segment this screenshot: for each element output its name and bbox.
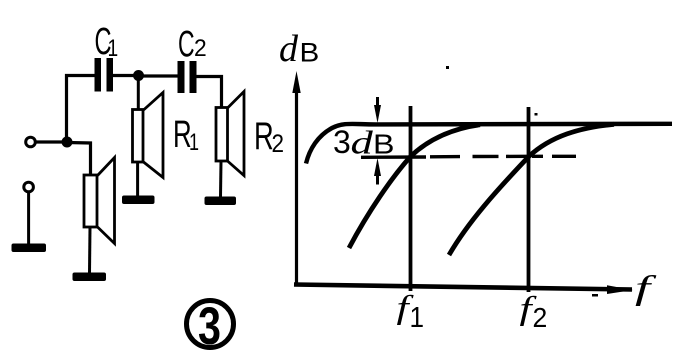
label 3dB bbox=[333, 124, 351, 160]
wire C2 to speaker R2 bbox=[197, 77, 222, 109]
wire terminal to node B bbox=[36, 140, 64, 143]
label f2 bbox=[520, 291, 538, 327]
wire node A to C2 bbox=[143, 74, 178, 77]
svg-text:1: 1 bbox=[189, 130, 199, 156]
svg-text:d: d bbox=[279, 28, 299, 70]
y-axis dB bbox=[292, 71, 300, 285]
x-axis f bbox=[294, 285, 633, 295]
dashed -3dB level line bbox=[361, 156, 576, 157]
3dB dimension arrow lower bbox=[374, 158, 381, 185]
ground under bottom terminal bbox=[12, 244, 47, 253]
ground under R1 bbox=[122, 196, 155, 205]
svg-text:2: 2 bbox=[272, 130, 285, 158]
label C1 bbox=[95, 19, 112, 62]
label f bbox=[635, 269, 657, 306]
wire speaker R2 to ground bbox=[219, 161, 223, 197]
svg-text:C: C bbox=[178, 23, 195, 65]
label R2 bbox=[254, 115, 274, 158]
ground under R2 bbox=[205, 197, 237, 206]
figure number 3 bbox=[187, 297, 234, 356]
curve 3 response f2 bbox=[449, 124, 614, 255]
node B junction dot bbox=[62, 137, 73, 148]
wire speaker LS1 to ground bbox=[88, 227, 92, 273]
svg-text:d: d bbox=[351, 125, 374, 161]
wire bottom terminal to ground bbox=[27, 193, 30, 245]
svg-text:2: 2 bbox=[194, 34, 207, 61]
ground under LS1 bbox=[73, 273, 107, 282]
label C2 bbox=[178, 23, 195, 65]
wire top-left loop bbox=[67, 76, 96, 143]
capacitor C2 bbox=[178, 61, 197, 93]
capacitor C1 bbox=[95, 58, 114, 92]
svg-text:f: f bbox=[635, 269, 657, 306]
input terminal top bbox=[26, 137, 36, 147]
vertical line f1 bbox=[409, 106, 413, 291]
svg-text:3: 3 bbox=[198, 297, 221, 356]
vertical line f2 bbox=[527, 107, 531, 292]
svg-text:B: B bbox=[300, 38, 320, 68]
speaker LS1 (input) bbox=[84, 158, 115, 244]
curve 2 response f1 bbox=[349, 125, 480, 248]
curve 1 response (with plateau) bbox=[306, 124, 672, 164]
svg-text:3: 3 bbox=[333, 124, 351, 160]
svg-text:1: 1 bbox=[410, 301, 425, 334]
svg-text:2: 2 bbox=[533, 301, 548, 333]
svg-text:B: B bbox=[373, 129, 394, 160]
speaker R2 bbox=[216, 92, 244, 176]
label R1 bbox=[173, 113, 192, 155]
input terminal bottom bbox=[24, 182, 34, 192]
wire speaker R1 to ground bbox=[136, 162, 139, 196]
wire node A to speaker R1 bbox=[137, 79, 140, 110]
wire node B to input speaker bbox=[67, 143, 91, 176]
svg-text:1: 1 bbox=[108, 34, 119, 62]
scan speck near top of graph bbox=[446, 66, 449, 69]
scan speck left of f2 line top bbox=[535, 113, 538, 116]
speaker R1 bbox=[133, 93, 164, 178]
3dB dimension arrow upper bbox=[374, 97, 381, 123]
node A junction dot bbox=[133, 70, 144, 81]
label f1 bbox=[397, 290, 415, 326]
scan speck under x-axis arrow bbox=[592, 294, 598, 297]
wire C1 to node A bbox=[113, 74, 134, 77]
label dB bbox=[279, 28, 299, 70]
